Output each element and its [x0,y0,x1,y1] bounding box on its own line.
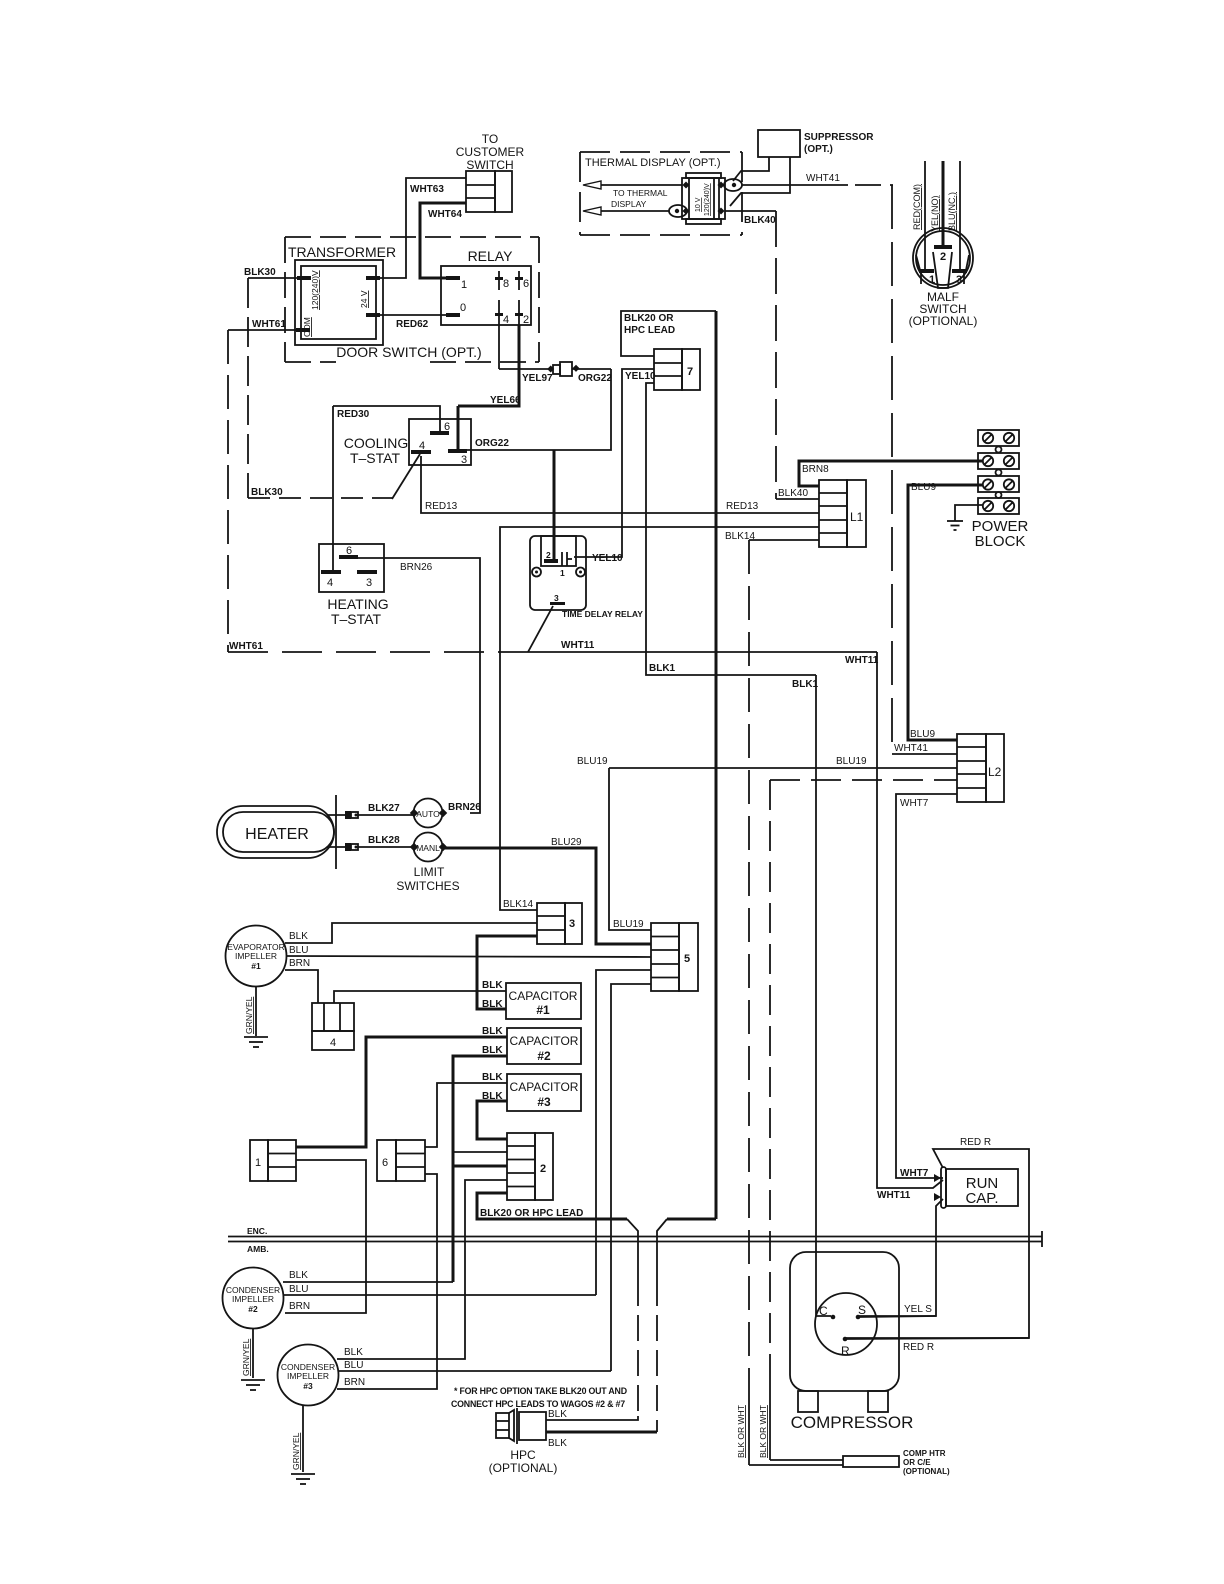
svg-text:YEL(NO): YEL(NO) [930,195,940,232]
svg-text:BLK30: BLK30 [251,487,283,498]
svg-text:RED30: RED30 [337,409,370,420]
connector 1 [250,1140,296,1181]
svg-text:RED R: RED R [903,1342,934,1353]
wire conn6 row3 to BRN #3 [337,1174,437,1389]
svg-text:120(240)V: 120(240)V [704,183,711,216]
svg-text:3: 3 [461,454,467,466]
svg-text:BLK40: BLK40 [744,215,776,226]
svg-text:4: 4 [327,577,333,589]
wire conn2 row3 to BLK #2 [453,1165,507,1168]
svg-text:4: 4 [503,314,509,326]
svg-text:WHT64: WHT64 [428,209,462,220]
svg-text:BLK1: BLK1 [649,663,676,674]
svg-text:#3: #3 [303,1381,313,1391]
svg-text:24 V: 24 V [359,290,369,308]
wire YEL66 [458,325,521,451]
svg-text:HPC LEAD: HPC LEAD [624,325,675,336]
svg-text:6: 6 [444,421,450,433]
svg-text:WHT11: WHT11 [845,655,879,666]
svg-text:(OPT.): (OPT.) [804,144,833,155]
svg-text:BLU19: BLU19 [613,919,644,930]
ground evaporator GRN/YEL [244,986,268,1047]
wire BLK cap1 bottom [477,936,537,1010]
wire BLK14 [500,527,819,910]
svg-text:2: 2 [546,550,551,560]
malf switch (optional) [909,161,978,328]
wire RED R top [845,1137,1029,1353]
svg-text:AMB.: AMB. [247,1244,269,1254]
HPC pressure switch (optional) [489,1408,558,1475]
svg-text:S: S [858,1303,866,1317]
note HPC option [451,1386,627,1409]
limit switch MANL [396,833,459,894]
svg-text:CAPACITOR: CAPACITOR [510,1080,579,1094]
svg-text:BLK27: BLK27 [368,803,400,814]
wire BLK28 [358,835,414,847]
wire BLU #3 label [338,1360,611,1371]
condenser impeller #3 motor [278,1345,339,1406]
svg-text:BLU19: BLU19 [836,756,867,767]
svg-text:BLK20 OR HPC LEAD: BLK20 OR HPC LEAD [480,1208,583,1219]
comp htr or c/e (optional) [843,1449,950,1476]
wire BLK30 [244,267,420,499]
heating t-stat S2 [319,544,389,627]
power block [972,430,1029,550]
time delay relay K2 [530,536,643,619]
wire YEL10 [574,369,656,564]
svg-text:8: 8 [503,278,509,290]
wire BLK27 [358,803,414,815]
funnel to compressor leads [627,1219,667,1432]
svg-text:TIME DELAY RELAY: TIME DELAY RELAY [562,609,643,619]
connector 5 [651,923,698,991]
svg-text:BLK: BLK [482,999,503,1010]
svg-text:BLU: BLU [289,945,308,956]
svg-text:BLK: BLK [344,1347,363,1358]
wire RED13 [421,456,819,513]
svg-text:ORG22: ORG22 [475,438,509,449]
svg-text:TRANSFORMER: TRANSFORMER [288,244,396,260]
svg-text:6: 6 [523,278,529,290]
svg-text:OR C/E: OR C/E [903,1458,931,1467]
to thermal display arrows [583,181,682,215]
svg-text:YEL66: YEL66 [490,395,521,406]
thermal display dashed enclosure [580,152,742,235]
wire RED30 [333,406,440,572]
svg-text:COM: COM [302,317,312,337]
heater element [217,795,345,869]
svg-text:IMPELLER: IMPELLER [287,1371,329,1381]
wire ORG22 [467,369,611,450]
wire BLU #2 [283,1284,596,1295]
wire RED R stub [845,1338,1029,1339]
svg-text:COMP HTR: COMP HTR [903,1449,946,1458]
wire BLK HPC top [546,1409,638,1420]
svg-text:BLK OR WHT: BLK OR WHT [736,1405,746,1458]
svg-text:BRN8: BRN8 [802,464,829,475]
suppressor (opt) [730,130,874,206]
svg-text:1: 1 [929,274,935,286]
connector 6 [377,1140,425,1181]
door switch dashed enclosure [285,237,539,362]
thermal display transformer T2 [669,173,742,224]
connector 3 [537,903,582,944]
wire RED62 [380,315,448,330]
svg-text:BLU9: BLU9 [910,729,935,740]
svg-text:BLU(NC.): BLU(NC.) [947,192,957,231]
svg-text:BRN: BRN [289,1301,310,1312]
svg-text:2: 2 [940,251,946,263]
svg-text:RED13: RED13 [726,501,759,512]
svg-text:CUSTOMER: CUSTOMER [456,145,525,159]
svg-text:3: 3 [554,593,559,603]
svg-text:BLK: BLK [289,1270,308,1281]
svg-text:LIMIT: LIMIT [414,865,445,879]
svg-text:0: 0 [460,302,466,314]
svg-text:#2: #2 [537,1049,551,1063]
wire BLK evap [285,923,537,943]
wire BRN8 [799,461,983,486]
svg-text:ENC.: ENC. [247,1226,267,1236]
splice ORG22/YEL97 butt connector [547,362,612,384]
wire WHT41 [742,173,957,754]
svg-text:BLK: BLK [548,1438,567,1449]
svg-text:* FOR HPC OPTION TAKE BLK20 OU: * FOR HPC OPTION TAKE BLK20 OUT AND [454,1386,627,1396]
svg-text:BLU: BLU [344,1360,363,1371]
svg-text:RED(COM): RED(COM) [912,184,922,230]
evaporator impeller #1 motor [226,926,287,987]
svg-text:CONNECT HPC LEADS TO WAGOS #2: CONNECT HPC LEADS TO WAGOS #2 & #7 [451,1399,625,1409]
heater lead plugs [345,811,358,851]
wire BLU #3 riser [611,984,651,1371]
wire BLU19 [577,756,957,930]
svg-text:1: 1 [461,279,467,291]
svg-text:BLK40: BLK40 [778,488,808,499]
svg-text:RED62: RED62 [396,319,429,330]
terminal block L2 [957,734,1004,802]
svg-text:BLK: BLK [482,1045,503,1056]
svg-text:BLK: BLK [482,1026,503,1037]
svg-text:L1: L1 [850,510,864,524]
svg-text:RED R: RED R [960,1137,991,1148]
wire WHT61 [228,319,530,652]
svg-text:BLK: BLK [482,980,503,991]
svg-text:BRN26: BRN26 [400,562,433,573]
svg-text:1: 1 [255,1157,261,1169]
svg-text:YEL97: YEL97 [522,373,553,384]
svg-text:120(240)V: 120(240)V [310,270,320,310]
svg-text:BLK: BLK [482,1091,503,1102]
connector 4 [312,1003,354,1050]
power block ground [947,505,983,530]
svg-text:BLK20 OR: BLK20 OR [624,313,674,324]
wire BLU29 [443,837,651,944]
svg-text:MANL: MANL [416,843,440,853]
wire BLK cap1 top [334,980,506,1003]
wire BLK20 bus [621,311,716,1219]
svg-text:BLU19: BLU19 [577,756,608,767]
svg-text:6: 6 [382,1157,388,1169]
wire BRN evap [285,958,318,1003]
relay K1 [441,248,531,326]
svg-text:DISPLAY: DISPLAY [611,199,647,209]
svg-text:#3: #3 [537,1095,551,1109]
svg-text:TO: TO [482,132,498,146]
svg-text:4: 4 [419,440,425,452]
svg-text:TO THERMAL: TO THERMAL [613,188,668,198]
ground condenser #2 GRN/YEL [241,1329,265,1390]
run capacitor [934,1167,1018,1208]
capacitor C3 [507,1074,581,1111]
wire conn2 row4 to BLK #3 [337,1180,507,1359]
svg-text:3: 3 [569,918,575,930]
svg-text:3: 3 [956,274,962,286]
svg-text:CAPACITOR: CAPACITOR [509,989,578,1003]
svg-text:T–STAT: T–STAT [331,611,381,627]
svg-text:WHT41: WHT41 [806,173,840,184]
svg-text:WHT61: WHT61 [252,319,286,330]
svg-text:(OPTIONAL): (OPTIONAL) [489,1461,558,1475]
svg-text:3: 3 [366,577,372,589]
limit switch AUTO [410,799,481,828]
wire YEL S [858,1199,943,1316]
transformer T1 [288,244,396,345]
svg-text:BLK14: BLK14 [503,899,533,910]
svg-text:C: C [819,1304,828,1318]
wire BLK1 [646,383,831,1316]
svg-text:GRN/YEL: GRN/YEL [241,1338,251,1376]
svg-text:2: 2 [540,1163,546,1175]
connector 2 [507,1133,553,1200]
compressor [790,1252,913,1432]
svg-text:BLK: BLK [548,1409,567,1420]
wire BLK cap2 bottom [453,1045,507,1282]
svg-text:6: 6 [346,545,352,557]
svg-text:YEL S: YEL S [904,1304,932,1315]
svg-text:BRN: BRN [344,1377,365,1388]
svg-text:#2: #2 [248,1304,258,1314]
wire YEL97 [499,325,553,384]
wire BLK #2 [283,1270,453,1282]
svg-text:BLK: BLK [482,1072,503,1083]
svg-text:COMPRESSOR: COMPRESSOR [791,1413,914,1432]
wire BLK cap3 bottom [477,1091,507,1139]
svg-text:WHT63: WHT63 [410,184,444,195]
svg-text:BLK: BLK [289,931,308,942]
svg-text:HEATER: HEATER [245,826,309,843]
svg-text:7: 7 [687,366,693,378]
enclosure/ambient boundary [228,1226,1042,1254]
svg-text:BLU29: BLU29 [551,837,582,848]
svg-text:BLK1: BLK1 [792,679,819,690]
wire WHT11 [528,606,943,1201]
svg-text:R: R [841,1344,850,1358]
wire BLK40 [725,211,819,499]
svg-text:WHT11: WHT11 [561,640,595,651]
svg-text:ORG22: ORG22 [578,373,612,384]
svg-text:HPC: HPC [510,1448,536,1462]
wire BRN26 [352,558,480,813]
svg-text:4: 4 [330,1037,336,1049]
comp heater leads BLK OR WHT [736,1405,843,1465]
svg-text:CAPACITOR: CAPACITOR [510,1034,579,1048]
svg-text:WHT7: WHT7 [900,798,929,809]
terminal block L1 [819,480,866,547]
svg-text:CAP.: CAP. [965,1190,998,1207]
svg-text:#1: #1 [251,961,261,971]
wire BLK20 OR HPC LEAD bottom [477,1193,716,1219]
capacitor C2 [507,1028,581,1064]
wire conn1 row2 to BRN #2 [285,1160,366,1313]
svg-text:SWITCH: SWITCH [466,158,513,172]
svg-text:BLK30: BLK30 [244,267,276,278]
svg-text:RED13: RED13 [425,501,458,512]
svg-text:BLOCK: BLOCK [975,533,1026,550]
svg-text:SUPPRESSOR: SUPPRESSOR [804,132,874,143]
cooling t-stat S1 [344,419,471,466]
svg-text:(OPTIONAL): (OPTIONAL) [903,1467,950,1476]
svg-text:BRN: BRN [289,958,310,969]
connector 7 [654,349,700,390]
condenser impeller #2 motor [223,1268,284,1329]
svg-text:(OPTIONAL): (OPTIONAL) [909,314,978,328]
wire L1 row5 HPC lead [749,540,819,1465]
capacitor C1 [506,983,581,1019]
wire YEL S stub [858,1316,936,1317]
svg-text:BRN26: BRN26 [448,802,481,813]
wire BLK cap2 top [296,1026,507,1147]
svg-text:BLU9: BLU9 [911,482,936,493]
ground condenser #3 GRN/YEL [291,1405,315,1484]
wire BLK HPC bottom [546,1432,657,1449]
svg-text:DOOR SWITCH (OPT.): DOOR SWITCH (OPT.) [336,344,481,360]
svg-text:#1: #1 [536,1003,550,1017]
wire BLK cap3 top [425,1072,507,1147]
wire WHT64 [420,203,466,278]
wire BLU9 [908,482,983,740]
svg-text:AUTO: AUTO [416,809,440,819]
svg-text:IMPELLER: IMPELLER [232,1294,274,1304]
svg-text:L2: L2 [988,765,1002,779]
svg-text:T–STAT: T–STAT [350,450,400,466]
svg-text:WHT61: WHT61 [229,641,263,652]
svg-text:1: 1 [560,568,565,578]
svg-text:BLK28: BLK28 [368,835,400,846]
svg-text:BLU: BLU [289,1284,308,1295]
svg-text:HEATING: HEATING [327,596,388,612]
connector J-CS customer switch plug [456,132,525,212]
wire WHT63 [376,178,466,278]
wire WHT7 [896,794,957,1179]
wire ORG22 to TDR pin2 [553,450,556,559]
svg-text:WHT11: WHT11 [877,1190,911,1201]
svg-text:IMPELLER: IMPELLER [235,951,277,961]
svg-text:WHT7: WHT7 [900,1168,929,1179]
svg-text:COOLING: COOLING [344,435,409,451]
wire BLU #2 riser [596,970,651,1295]
wire HPC lead to L2 row4 (dashed) [770,780,957,1460]
wire BLU evap [286,945,651,957]
svg-text:GRN/YEL: GRN/YEL [291,1432,301,1470]
svg-text:WHT41: WHT41 [894,743,928,754]
svg-text:2: 2 [523,314,529,326]
svg-text:THERMAL DISPLAY (OPT.): THERMAL DISPLAY (OPT.) [585,157,721,169]
svg-text:BLK OR WHT: BLK OR WHT [758,1405,768,1458]
svg-text:SWITCHES: SWITCHES [396,879,459,893]
svg-text:10 V: 10 V [695,197,702,212]
svg-text:5: 5 [684,953,690,965]
svg-text:YEL10: YEL10 [625,371,656,382]
svg-text:YEL10: YEL10 [592,553,623,564]
svg-text:RELAY: RELAY [468,248,514,264]
svg-text:GRN/YEL: GRN/YEL [244,996,254,1034]
